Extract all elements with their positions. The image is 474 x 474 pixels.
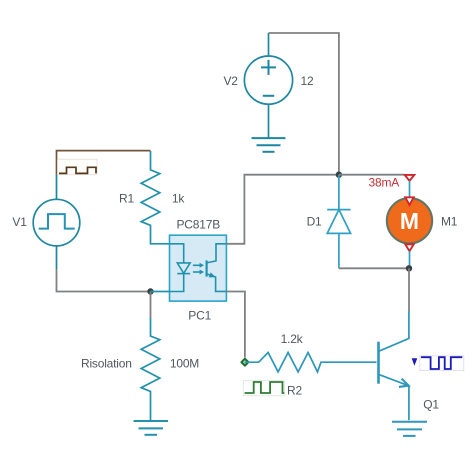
wire teal left junction to opto pin2 [151, 291, 170, 293]
svg-text:D1: D1 [307, 215, 322, 229]
svg-text:12: 12 [301, 74, 314, 88]
wire gray opto collector to +12 rail [226, 175, 339, 244]
svg-text:PC817B: PC817B [177, 218, 221, 232]
svg-text:Risolation: Risolation [81, 357, 132, 371]
wire gray bottom D1 to motor junction [339, 267, 409, 269]
scope probe marker blue arrow [412, 358, 418, 365]
svg-text:V2: V2 [224, 74, 239, 88]
motor M1 [387, 198, 432, 243]
opto phototransistor (pins 3-4) [207, 244, 227, 292]
scope probe icon blue (collector waveform) [420, 356, 464, 371]
svg-text:1.2k: 1.2k [281, 332, 304, 346]
node junction +12 rail [336, 172, 342, 178]
diode D1 [327, 175, 350, 269]
node junction motor bottom [406, 265, 412, 271]
ground under Q1 [392, 422, 427, 436]
transistor Q1 NPN [379, 311, 409, 420]
optocoupler PC1 PC817B body [170, 235, 227, 301]
node probe diamond green [241, 359, 248, 366]
svg-text:R1: R1 [119, 192, 134, 206]
current probe arrow on wire [405, 175, 415, 181]
svg-text:M1: M1 [441, 215, 458, 229]
svg-text:Q1: Q1 [423, 397, 439, 411]
wire gray motor junction down to Q1 collector [408, 268, 410, 311]
wire gray ground net bottom-left [57, 269, 151, 292]
motor top current arrow [405, 197, 413, 205]
wire teal probe to motor [409, 181, 411, 198]
opto LED (pins 1-2) [170, 244, 191, 292]
wire gray junction down to Risolation [150, 292, 152, 319]
voltage source V1 (pulse) [33, 175, 80, 269]
wire teal motor bottom stub [409, 251, 411, 268]
ground under Risolation [134, 421, 169, 435]
wire gray rail junction to current probe [339, 174, 405, 176]
motor bottom current arrow [405, 244, 413, 251]
resistor Risolation 100M [141, 318, 160, 420]
svg-text:V1: V1 [12, 215, 27, 229]
svg-text:R2: R2 [287, 384, 302, 398]
svg-text:PC1: PC1 [188, 308, 211, 322]
svg-text:100M: 100M [170, 357, 199, 371]
svg-text:1k: 1k [172, 192, 185, 206]
opto light arrows [193, 263, 204, 275]
scope probe icon green (base waveform) [243, 381, 284, 396]
voltage source V2 12V [244, 33, 292, 138]
wire brown net V1.top to R1.top [57, 151, 151, 175]
scope probe icon brown (V1 waveform) [58, 159, 98, 175]
resistor R1 1k [141, 151, 169, 244]
svg-text:M: M [400, 208, 419, 234]
wire gray +12 rail from V2 to top junction [269, 33, 339, 175]
ground under V2 [252, 138, 286, 152]
wire gray opto emitter down to node R2.left [226, 292, 245, 358]
svg-text:38mA: 38mA [369, 176, 400, 190]
resistor R2 1.2k and base wire [245, 353, 377, 372]
Q1 emitter arrowhead [399, 379, 409, 387]
node junction left (V1- / opto cathode / Risolation) [147, 288, 153, 294]
